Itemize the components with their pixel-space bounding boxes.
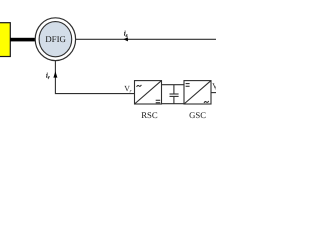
wire stator to grid [76, 38, 216, 40]
arrow i_s (points left) [123, 37, 128, 41]
GSC diagonal [184, 81, 211, 104]
svg-text:GSC: GSC [189, 110, 206, 120]
RSC diagonal [135, 81, 162, 104]
converter GSC box [184, 81, 211, 104]
wire GSC to grid [211, 92, 216, 94]
svg-text:DFIG: DFIG [45, 34, 66, 44]
svg-text:RSC: RSC [141, 110, 158, 120]
GSC ac mark (~) [204, 101, 209, 103]
converter RSC box [135, 81, 162, 104]
capacitor C dc-link [173, 85, 175, 94]
GSC dc mark (=) [186, 84, 190, 87]
RSC ac mark (~) [137, 85, 142, 87]
RSC dc mark (=) [156, 100, 161, 102]
svg-text:s: s [215, 86, 216, 92]
svg-text:s: s [126, 33, 128, 39]
generator DFIG outer circle [35, 18, 75, 61]
arrow i_r (points up) [53, 71, 57, 77]
wire dc bus bottom [162, 103, 185, 105]
wire dc bus top [162, 84, 185, 86]
generator DFIG inner circle [39, 22, 72, 57]
shaft [10, 38, 36, 42]
wind turbine block (yellow, cut at left edge) [0, 23, 10, 57]
wire rotor (vertical + elbow to RSC) [55, 61, 134, 94]
